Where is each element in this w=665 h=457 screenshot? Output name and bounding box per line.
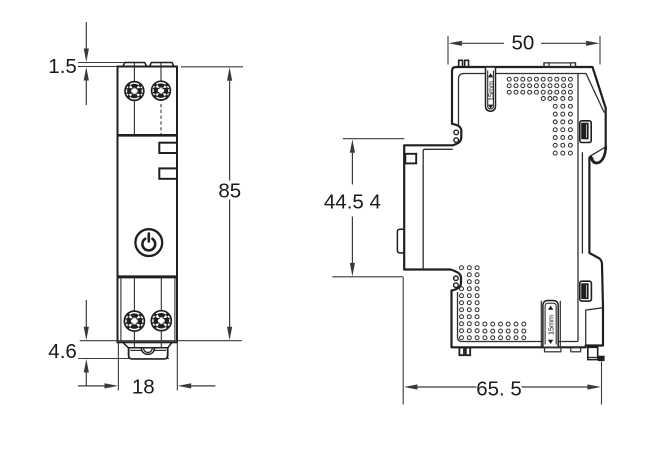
dimension 85 arrow down	[229, 200, 231, 328]
top label strip	[544, 63, 576, 67]
lower 15mm slot channel	[540, 301, 542, 348]
svg-text:85: 85	[218, 180, 241, 203]
ventilation holes right band	[553, 97, 572, 156]
inner contour top	[496, 74, 605, 113]
upper 15mm slot	[486, 68, 496, 111]
dimension 18 extension line left	[117, 342, 119, 391]
lower terminal inner wall left	[120, 277, 122, 342]
dimension 1.5 extension line bottom	[78, 66, 118, 68]
inner contour top-left	[459, 74, 486, 127]
upper terminal screw center dashed line right	[160, 104, 162, 135]
dimension 50 extension left	[447, 36, 449, 65]
dimension 44.5 extension bottom	[332, 276, 403, 278]
screw terminal at 161.3,320.7	[151, 311, 171, 331]
side vent tab 1 on right edge	[159, 143, 177, 153]
ventilation holes transition row	[541, 97, 552, 101]
upper latch window	[580, 121, 591, 143]
DIN clip foot	[129, 348, 168, 359]
svg-text:1.5: 1.5	[48, 55, 77, 78]
bottom lip trapezoid	[122, 342, 172, 348]
power symbol	[142, 234, 155, 251]
lower terminal screw center line left	[133, 277, 135, 348]
svg-text:15mm: 15mm	[546, 315, 555, 335]
side view main outline	[404, 67, 606, 347]
ventilation holes top band	[507, 77, 572, 94]
front face square feature	[405, 154, 416, 164]
dimension 50 extension right	[599, 36, 601, 65]
dimension 4.6 extension line bottom	[78, 358, 169, 360]
power button outer ring	[135, 229, 162, 256]
lower 15mm slot	[543, 301, 558, 347]
dimension 65.5 extension left	[402, 278, 404, 405]
ventilation holes bottom band	[483, 322, 526, 340]
lower terminal separator thick line	[118, 275, 178, 278]
svg-text:50: 50	[511, 32, 534, 55]
bottom mounting tab squares	[459, 348, 464, 356]
dimension 44.5 extension top	[343, 138, 405, 140]
dimension 18 left arrow	[78, 385, 105, 387]
DIN clip inner line left	[130, 349, 141, 351]
upper terminal separator thick line	[118, 134, 178, 137]
lower latch window	[580, 281, 592, 301]
side vent tab 2 on right edge	[159, 168, 177, 178]
svg-text:18: 18	[132, 376, 155, 399]
dimension 65.5 line and arrows	[404, 384, 418, 389]
dimension 85 arrow up	[227, 67, 232, 81]
dimension 18 right arrow	[178, 383, 192, 388]
DIN clip inner line right	[155, 349, 167, 351]
dimension 1.5 lower arrow	[84, 67, 89, 81]
upper terminal screw center line right	[160, 63, 162, 102]
inner contour right vertical	[577, 74, 579, 342]
inner contour bottom	[458, 292, 579, 342]
dimension 44.5 arrows	[350, 139, 355, 153]
dimension 65.5 extension right	[601, 362, 603, 405]
hinge pin circles top	[454, 130, 459, 135]
dimension 1.5 extension line top	[78, 62, 125, 64]
screw terminal at 134.4,321.1	[124, 311, 144, 331]
claw notch roof line	[590, 148, 605, 157]
upper terminal screw center line left	[133, 63, 135, 136]
screw terminal at 134.4,91	[125, 82, 144, 101]
dimension 4.6 upper arrow	[85, 300, 87, 327]
lower terminal inner wall right	[174, 277, 176, 342]
hinge pin circles bottom	[454, 276, 459, 281]
latch lower slant line	[586, 308, 603, 346]
dimension 85 extension line top	[181, 66, 243, 68]
svg-text:4.6: 4.6	[48, 340, 77, 363]
dimension 4.6 lower arrow	[84, 359, 89, 373]
front view body outline	[118, 67, 178, 343]
ventilation holes lower left band	[460, 266, 480, 340]
front top screw cover bump right	[149, 63, 174, 67]
dimension 85 extension/bottom line	[80, 340, 242, 342]
bottom feet strips	[545, 347, 561, 351]
dimension 50 line and arrows	[448, 41, 462, 46]
front inner step lines	[423, 149, 453, 269]
DIN clip U-notch inner	[144, 348, 153, 353]
front top screw cover bump left	[123, 63, 147, 67]
svg-text:65. 5: 65. 5	[476, 377, 522, 400]
svg-text:15mm: 15mm	[486, 81, 495, 101]
inner wall line	[581, 152, 583, 253]
dimension 18 extension line right	[176, 342, 178, 391]
svg-text:44.5 4: 44.5 4	[324, 190, 381, 213]
lower terminal screw center line right	[160, 277, 162, 348]
bottom right DIN claw	[588, 347, 598, 359]
dimension 1.5 upper arrow	[85, 22, 87, 50]
DIN clip U-notch outer	[141, 348, 154, 355]
top mounting tab squares	[459, 60, 463, 67]
screw terminal at 161,90.6	[152, 81, 171, 100]
front face left tab	[397, 229, 404, 253]
claw hook emphasis	[592, 146, 606, 163]
